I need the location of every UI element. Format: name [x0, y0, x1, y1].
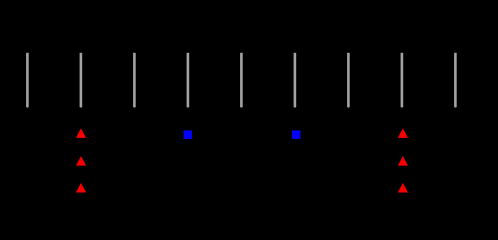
blue square marker, tick 4 — [184, 130, 193, 139]
tick mark 6 — [294, 53, 297, 108]
red triangle marker, right column row 2 — [398, 156, 408, 166]
tick mark 3 — [133, 53, 136, 108]
red triangle marker, left column row 1 — [76, 128, 86, 138]
tick mark 8 — [401, 53, 404, 108]
tick mark 2 — [80, 53, 83, 108]
red triangle marker, right column row 3 — [398, 183, 408, 193]
tick mark 7 — [347, 53, 350, 108]
tick mark 4 — [187, 53, 190, 108]
tick mark 9 — [454, 53, 457, 108]
tick mark 5 — [240, 53, 243, 108]
tick mark 1 — [26, 53, 29, 108]
red triangle marker, left column row 3 — [76, 183, 86, 193]
red triangle marker, right column row 1 — [398, 128, 408, 138]
blue square marker, tick 6 — [292, 130, 301, 139]
red triangle marker, left column row 2 — [76, 156, 86, 166]
